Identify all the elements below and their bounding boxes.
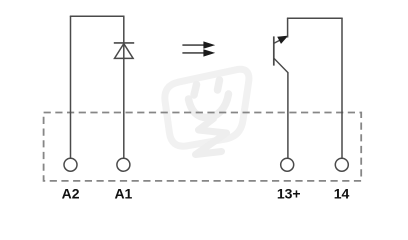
terminal 14 [335, 158, 348, 171]
wire input top horizontal [70, 15, 125, 17]
optocoupler light arrow upper [182, 41, 215, 48]
watermark logo rounded square [165, 69, 249, 146]
wire collector vertical to top [287, 18, 289, 37]
wire 13+ vertical [287, 73, 289, 159]
diode V1 cathode bar [114, 42, 134, 44]
wire A2 vertical [70, 16, 72, 158]
phototransistor T1 emitter angled line [274, 58, 288, 73]
wire output top horizontal [287, 17, 343, 19]
svg-text:A2: A2 [62, 186, 80, 202]
terminal A2 [64, 158, 77, 171]
watermark plug pin left [194, 85, 197, 96]
terminal A1 [117, 158, 130, 171]
wire A1 vertical [123, 16, 125, 158]
optocoupler light arrow lower [182, 49, 215, 56]
svg-text:A1: A1 [114, 186, 132, 202]
wire 14 vertical [341, 18, 343, 158]
phototransistor T1 collector angled line with arrow [274, 36, 288, 44]
dashed module outline box [44, 113, 362, 181]
watermark plug pin right [218, 80, 220, 90]
terminal 13+ [281, 158, 294, 171]
phototransistor T1 base bar [273, 36, 275, 65]
diode V1 triangle [115, 44, 134, 59]
watermark smile arc [189, 94, 229, 118]
svg-text:14: 14 [334, 186, 350, 202]
svg-text:13+: 13+ [277, 186, 301, 202]
watermark lightning zigzag [196, 119, 227, 155]
